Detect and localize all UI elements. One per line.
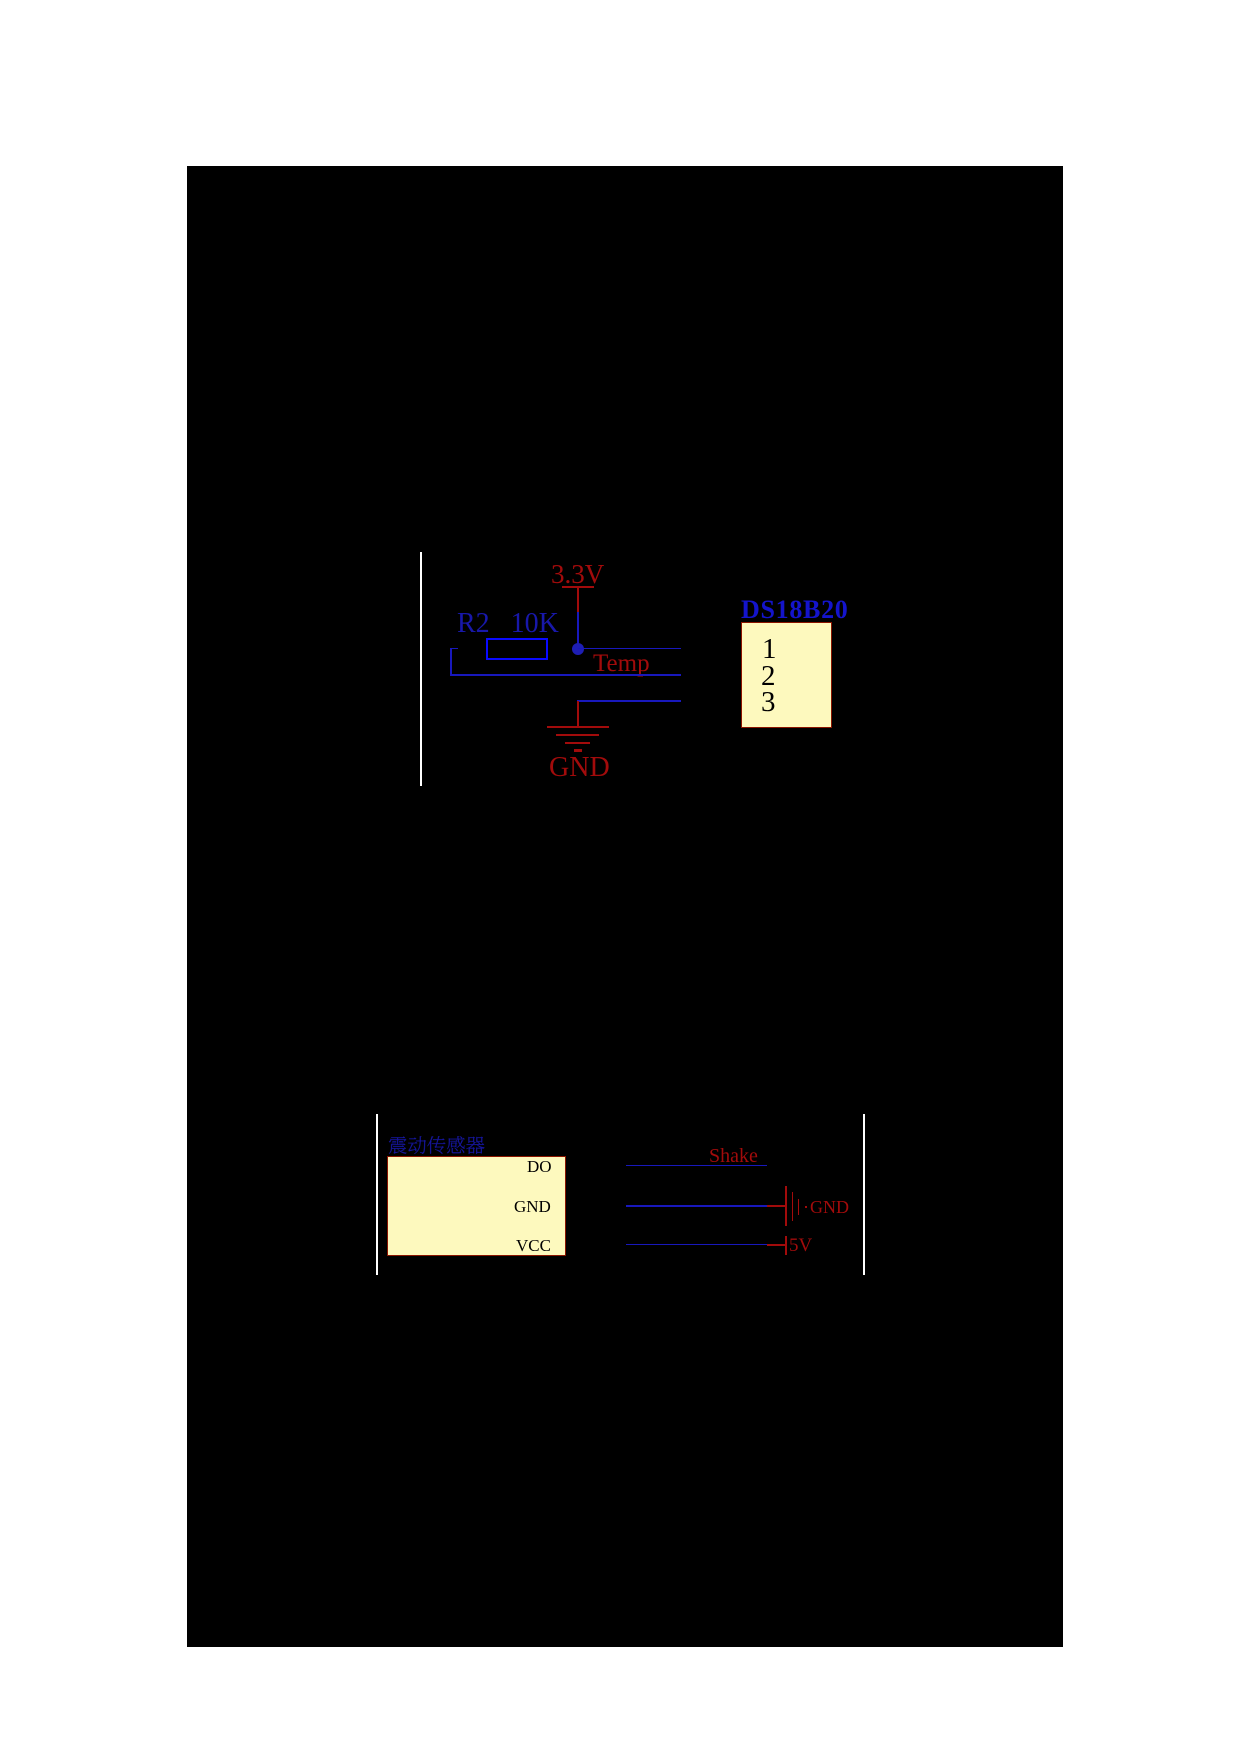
pin label GND <box>514 1198 551 1215</box>
part name DS18B20 <box>741 597 848 623</box>
right page-break line (bottom circuit) <box>863 1114 865 1275</box>
node junction <box>572 643 584 655</box>
power stem red <box>577 587 579 612</box>
ground lead <box>577 701 579 727</box>
resistor R2 body <box>486 638 548 660</box>
power label 5V <box>789 1236 812 1255</box>
pin label DO <box>527 1158 552 1175</box>
net label Temp <box>593 651 650 676</box>
ground symbol GND <box>547 726 609 728</box>
power bar 3.3V <box>562 586 594 588</box>
schematic canvas <box>187 166 1063 1647</box>
pin number 2 <box>761 662 776 691</box>
wire Temp upper <box>578 648 681 650</box>
left page-break line (bottom circuit) <box>376 1114 378 1275</box>
sensor module body <box>387 1156 566 1256</box>
left page-break line (top circuit) <box>420 552 422 786</box>
wire GND red segment <box>767 1205 786 1207</box>
connector DS18B20 body <box>741 622 832 728</box>
pin label VCC <box>516 1237 551 1254</box>
wire VCC red segment <box>767 1244 786 1246</box>
wire GND <box>626 1205 767 1207</box>
pin number 1 <box>762 635 777 664</box>
power symbol GND (sideways) <box>785 1186 787 1226</box>
resistor left lead tick <box>450 648 458 650</box>
resistor R2 label <box>457 610 559 638</box>
ground label GND <box>549 754 610 782</box>
part name vibration sensor (Chinese) <box>388 1133 488 1157</box>
wire left vertical <box>450 648 452 676</box>
wire DO / Shake <box>626 1165 767 1166</box>
power label 3.3V <box>551 561 604 588</box>
power bar 5V <box>785 1236 787 1255</box>
power label GND <box>810 1198 849 1216</box>
wire VCC <box>626 1244 767 1245</box>
pin number 3 <box>761 688 776 717</box>
net label Shake <box>709 1146 758 1166</box>
wire lower <box>450 674 681 676</box>
wire pin3 <box>577 700 681 702</box>
wire stem blue to node <box>577 612 579 644</box>
